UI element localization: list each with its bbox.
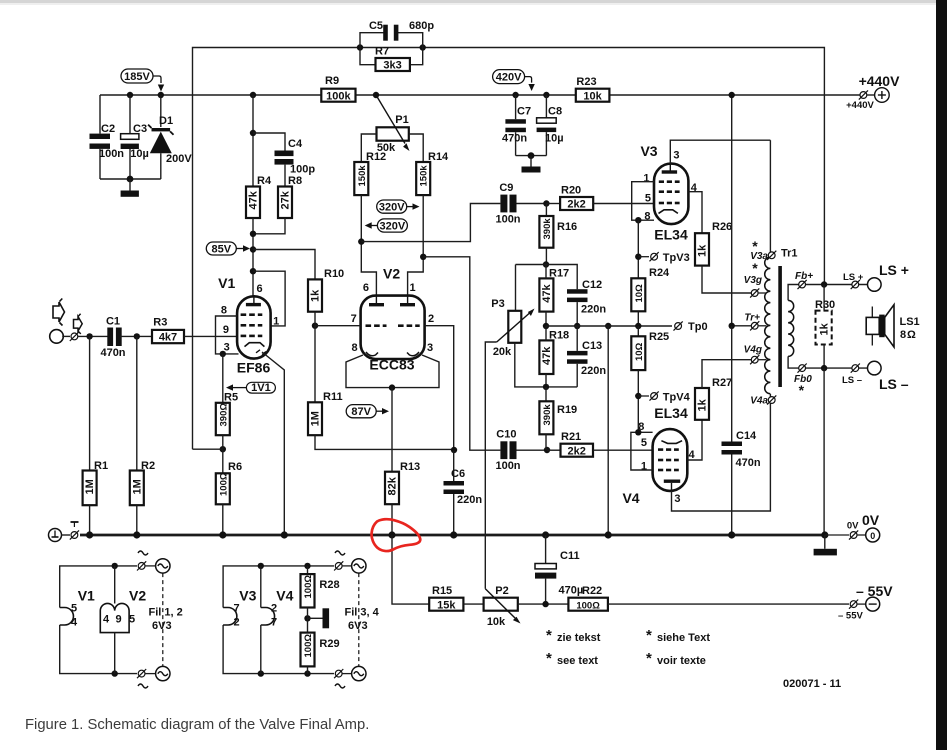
svg-text:5: 5 [641,437,647,449]
testpoint Tp0 [674,321,708,333]
note see text [546,650,598,667]
node C7 C8 gnd [528,152,535,159]
label 320V right arrow [377,200,420,214]
node V1 cathode [220,351,226,357]
svg-text:R14: R14 [428,151,449,163]
diode D1 zener [148,95,192,179]
svg-text:15k: 15k [437,599,456,611]
svg-text:C13: C13 [582,340,602,352]
label 85V [206,242,250,255]
svg-text:10k: 10k [487,616,506,628]
svg-text:V3g: V3g [744,275,762,286]
label 185V [121,69,164,92]
wire PSU bottom [100,178,161,180]
svg-text:*: * [646,627,652,644]
svg-text:4: 4 [689,449,696,461]
svg-text:R17: R17 [549,268,569,280]
node rail Fb0 [821,531,828,538]
transformer core [778,266,782,387]
svg-text:320V: 320V [379,202,405,214]
node 85V anode [250,246,256,252]
node rail R1 [86,531,93,538]
svg-text:Figure 1. Schematic diagram of: Figure 1. Schematic diagram of the Valve… [25,717,369,733]
potentiometer P3 [491,298,534,358]
svg-text:100n: 100n [495,214,520,226]
tube V3 EL34 [640,143,697,243]
tube V1 EF86 [218,275,279,376]
label Fil 1 2 [149,607,183,633]
svg-text:– 55V: – 55V [838,611,863,622]
svg-text:siehe Text: siehe Text [657,632,710,644]
resistor R2 [130,336,155,535]
wire Fb0 row [797,367,868,369]
capacitor C12 [567,279,606,326]
wire P1 left to R12 [361,134,376,162]
wire V1 pin8 pin3 loop [216,316,239,354]
resistor R28 [301,566,340,608]
resistor R21 [547,431,655,457]
resistor R30 dashed [815,285,835,369]
resistor R3 [152,317,237,344]
svg-text:1V1: 1V1 [251,382,271,394]
svg-text:87V: 87V [351,406,371,418]
svg-text:1k: 1k [697,398,709,411]
svg-text:R18: R18 [549,330,569,342]
svg-text:R9: R9 [325,75,339,87]
resistor R17 [539,265,569,327]
node heater V4 bottom [258,670,264,676]
svg-text:8: 8 [221,305,227,317]
wire upper divider row [516,265,578,290]
node C4 branch [250,130,256,136]
wire C10 pickup [423,257,500,450]
svg-text:390k: 390k [542,404,553,426]
svg-text:185V: 185V [124,71,150,83]
svg-text:R29: R29 [319,638,339,650]
node Tp0 R24 R25 [635,323,641,329]
svg-text:10Ω: 10Ω [634,284,645,303]
svg-text:R5: R5 [224,392,238,404]
node mid row gnd drop [605,323,611,329]
svg-text:6V3: 6V3 [348,620,368,632]
svg-text:4k7: 4k7 [159,332,177,344]
node heater V2 bottom [112,670,118,676]
wire V4 anode to V4a [672,400,771,511]
node mid row C12 C13 [574,323,580,329]
svg-text:1M: 1M [84,479,96,494]
wire P1 right to R14 [409,134,423,162]
svg-text:6V3: 6V3 [152,620,172,632]
svg-text:R19: R19 [557,404,577,416]
node Fb+ R30 [821,281,827,287]
node R4 top [250,92,256,98]
connector Tr+ [744,312,766,330]
resistor R24 [631,267,670,326]
tube V4 EL34 [622,405,695,506]
node C8 rail [543,92,549,98]
capacitor C3 [121,95,149,179]
transformer Tr1 secondary [788,285,797,369]
node C1 R2 [134,333,140,339]
svg-text:LS –: LS – [879,376,909,392]
svg-text:2k2: 2k2 [567,199,585,211]
node rail R6 [219,531,226,538]
wire mid gnd vertical [607,326,609,535]
wire V2 cathode bracket [346,355,439,388]
svg-text:3: 3 [674,493,680,505]
svg-text:R8: R8 [288,175,302,187]
svg-text:220n: 220n [581,304,606,316]
svg-text:1k: 1k [819,322,831,335]
wire feedback top line [193,48,825,450]
svg-text:1: 1 [410,282,416,294]
svg-text:27k: 27k [280,190,292,209]
svg-text:V4: V4 [276,588,293,604]
svg-text:47k: 47k [541,283,553,302]
resistor R15 [429,585,483,611]
svg-text:9: 9 [116,614,122,626]
node heater R28 top [304,563,310,569]
svg-text:1: 1 [643,173,649,185]
wire P3 wiper down [485,342,496,589]
capacitor C9 [495,182,546,226]
node rail C14 [728,531,735,538]
svg-text:2k2: 2k2 [568,445,586,457]
svg-text:voir texte: voir texte [657,655,706,667]
resistor R25 [631,326,669,432]
svg-text:100Ω: 100Ω [218,472,229,496]
svg-text:TpV4: TpV4 [663,391,691,403]
svg-text:220n: 220n [581,365,606,377]
svg-text:420V: 420V [496,72,522,84]
connector fil34 top [334,551,366,573]
svg-text:10µ: 10µ [545,133,564,145]
capacitor C6 [444,450,483,534]
svg-text:V2: V2 [383,266,400,282]
svg-text:5: 5 [129,614,135,626]
svg-text:D1: D1 [159,115,173,127]
right black sidebar [936,0,947,750]
node rail 440 [729,92,735,98]
svg-text:*: * [752,260,758,276]
node C7 rail [512,92,518,98]
svg-text:V2: V2 [129,588,146,604]
ground PSU [121,179,139,197]
wire Fb0 to gnd [823,368,825,534]
wire R4 column [252,95,254,187]
label 320V left arrow [365,219,408,232]
svg-text:85V: 85V [212,243,232,255]
node Tr+ C14 [729,323,735,329]
page top edge shading [0,0,947,3]
wire fil12 dashed [162,573,164,666]
svg-text:R27: R27 [712,377,732,389]
node rail C11 [542,531,549,538]
svg-text:1k: 1k [697,244,709,257]
svg-text:C8: C8 [548,106,562,118]
svg-text:V4g: V4g [744,344,762,355]
svg-text:R7: R7 [375,46,389,58]
resistor R9 [321,75,355,102]
svg-text:R24: R24 [649,267,670,279]
svg-text:3: 3 [673,150,679,162]
svg-text:680p: 680p [409,20,434,32]
connector V3g [744,260,767,298]
svg-text:7: 7 [271,617,277,629]
label 420V [493,70,535,91]
svg-text:100Ω: 100Ω [303,634,314,658]
svg-text:Tr+: Tr+ [744,312,760,323]
node rail V1k [281,531,288,538]
capacitor C13 [567,326,606,387]
resistor R6 [216,435,242,535]
wire 185V node down left [99,95,101,134]
svg-text:10k: 10k [583,90,602,102]
svg-text:R16: R16 [557,221,577,233]
label 1V1 [226,382,275,394]
node input R1 [86,333,92,339]
node P1 top [373,92,379,98]
node heater V4 top [258,563,264,569]
svg-text:20k: 20k [493,346,512,358]
wire V1 screen loop [253,271,285,326]
resistor R10 [308,268,344,312]
svg-text:*: * [546,627,552,644]
wire V3 anode top [670,140,770,163]
svg-text:100k: 100k [326,90,351,102]
svg-text:Tr1: Tr1 [781,248,798,260]
note siehe Text [646,627,710,644]
heater V3 filament [223,588,257,629]
svg-text:P3: P3 [491,298,504,310]
svg-text:4: 4 [103,614,110,626]
node R4 bottom [250,231,256,237]
svg-text:Fil 3, 4: Fil 3, 4 [345,607,380,619]
heater V2 filament [100,566,146,674]
svg-text:320V: 320V [380,220,406,232]
svg-text:2: 2 [234,617,240,629]
connector fil12 bottom [137,666,170,688]
wire R10 feed [253,250,315,280]
svg-text:V1: V1 [218,275,235,291]
svg-text:R12: R12 [366,151,386,163]
svg-text:R15: R15 [432,585,452,597]
svg-text:7: 7 [234,603,240,615]
svg-text:220n: 220n [457,494,482,506]
svg-text:1: 1 [273,316,279,328]
node screen tap [250,268,256,274]
label 87V [346,405,389,418]
terminal 0V [825,512,880,542]
node R16 bottom [543,261,549,267]
capacitor C1 [100,316,152,360]
svg-text:R26: R26 [712,221,732,233]
capacitor C8 [537,95,564,156]
wire fil34 dashed [358,573,360,666]
connector V4a [750,395,776,406]
svg-text:C10: C10 [496,429,516,441]
node heater centertap [304,615,310,621]
wire lower divider row [515,343,577,387]
ground main [814,535,837,555]
speaker LS1 [866,305,919,347]
svg-text:82k: 82k [387,476,399,495]
node C11 P2 [542,601,548,607]
svg-text:R20: R20 [561,185,581,197]
wire fb to cathode [193,448,223,450]
icon audio in arrow small [74,317,83,332]
svg-text:R30: R30 [815,299,835,311]
svg-text:C5: C5 [369,20,383,32]
node feedback left [357,44,363,50]
connector fil12 top [137,551,170,573]
svg-text:+440V: +440V [846,100,874,111]
svg-text:0V: 0V [862,512,880,528]
wire Fb+ row [797,284,868,286]
svg-text:C6: C6 [451,468,465,480]
svg-text:3: 3 [427,342,433,354]
resistor R5 [216,354,238,435]
potentiometer P2 [484,585,569,628]
svg-text:5: 5 [71,603,77,615]
resistor R18 [539,326,569,387]
svg-text:C2: C2 [101,123,115,135]
svg-text:ECC83: ECC83 [369,357,414,373]
svg-text:EL34: EL34 [654,227,688,243]
svg-text:4: 4 [71,617,78,629]
svg-text:R13: R13 [400,461,420,473]
svg-text:390k: 390k [542,218,553,240]
tube V2 ECC83 [351,266,434,373]
svg-text:Tp0: Tp0 [688,321,708,333]
resistor R19 [539,387,577,450]
connector fil34 bottom [334,666,366,688]
resistor R26 [695,221,755,293]
input terminal [50,330,108,344]
svg-text:5: 5 [645,193,651,205]
svg-text:7: 7 [351,313,357,325]
svg-text:100p: 100p [290,164,315,176]
svg-text:6: 6 [363,282,369,294]
svg-text:10Ω: 10Ω [634,342,645,361]
connector V4g [744,344,767,364]
node C9 R16 [543,200,549,206]
svg-text:C14: C14 [736,430,757,442]
node R5 R6 fb [220,446,226,452]
resistor R14 [416,151,449,195]
svg-text:TpV3: TpV3 [663,252,690,264]
svg-text:R1: R1 [94,460,108,472]
wire mid row [546,325,672,327]
connector Fb0 [794,364,812,399]
svg-text:EL34: EL34 [654,405,688,421]
wire 0V bus [80,534,825,537]
svg-text:150k: 150k [357,165,368,187]
resistor R12 [354,151,386,195]
icon audio in arrow big [53,302,65,322]
wire V4 bracket [631,432,653,470]
svg-text:P2: P2 [495,585,508,597]
svg-text:see text: see text [557,655,598,667]
capacitor C4 [275,138,316,187]
resistor R29 [301,633,340,674]
node TpV4 [635,393,641,399]
svg-text:V3: V3 [640,143,657,159]
svg-text:C1: C1 [106,316,120,328]
svg-text:8: 8 [351,342,357,354]
testpoint TpV4 [638,391,690,403]
svg-text:Fb+: Fb+ [795,271,813,282]
connector LS+ [843,262,909,291]
capacitor C10 [495,429,547,473]
capacitor C2 [90,123,125,179]
note zie tekst [546,627,601,644]
potentiometer P1 [376,95,410,154]
wire R13 to R15 [392,535,429,604]
svg-text:C3: C3 [133,123,147,135]
node TpV3 [635,254,641,260]
resistor R22 [568,585,849,611]
wire main HT rail [100,94,321,96]
svg-text:C12: C12 [582,279,602,291]
svg-text:R6: R6 [228,461,242,473]
capacitor C5 [360,20,434,48]
wire V4 g2 to R27 [687,420,702,460]
svg-text:*: * [646,650,652,667]
node rail mid [605,531,612,538]
terminal +440V [846,73,900,111]
svg-text:200V: 200V [166,153,192,165]
wire P3 top [515,265,517,311]
resistor R1 [83,336,108,535]
node feedback right [420,44,426,50]
node heater V2 top [112,563,118,569]
resistor R7 [360,46,423,72]
wire V3 g2 to R26 [688,192,702,234]
node C6 junction [451,447,457,453]
node V2 grid1 [312,323,318,329]
svg-text:100n: 100n [99,148,124,160]
svg-text:47k: 47k [248,190,260,209]
node C10 R19 [544,447,550,453]
resistor R23 [576,76,610,102]
svg-text:470n: 470n [736,457,761,469]
svg-text:LS +: LS + [843,272,864,283]
capacitor C7 [502,95,531,156]
wire R14 bottom to V2 anode [408,195,424,303]
svg-text:9: 9 [223,324,229,336]
svg-text:V4: V4 [622,490,639,506]
svg-text:R22: R22 [582,585,602,597]
svg-text:C7: C7 [517,106,531,118]
note voir texte [646,650,706,667]
node rail R13 circled [388,531,395,538]
svg-text:R3: R3 [153,317,167,329]
resistor R11 [308,326,454,450]
resistor R8 [278,175,302,218]
node R12 C9 [358,238,364,244]
svg-text:*: * [799,382,805,398]
svg-text:zie tekst: zie tekst [557,632,601,644]
node mid row R17 R18 [543,323,549,329]
capacitor C11 [535,535,583,604]
node rail C6 [450,531,457,538]
svg-text:C4: C4 [288,138,303,150]
svg-text:V3: V3 [239,588,256,604]
svg-text:10µ: 10µ [130,148,149,160]
wire V3 g3 cathode bracket [632,182,654,221]
connector Fb+ [795,271,813,289]
